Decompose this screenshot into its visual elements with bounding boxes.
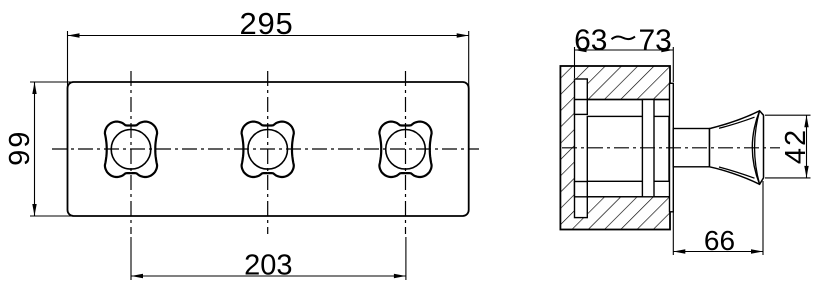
svg-text:99: 99: [4, 130, 36, 166]
svg-text:63: 63: [574, 24, 607, 57]
svg-text:66: 66: [704, 225, 735, 256]
svg-text:203: 203: [244, 250, 292, 282]
svg-text:295: 295: [239, 6, 293, 41]
svg-text:42: 42: [780, 128, 812, 164]
svg-text:73: 73: [639, 24, 672, 57]
